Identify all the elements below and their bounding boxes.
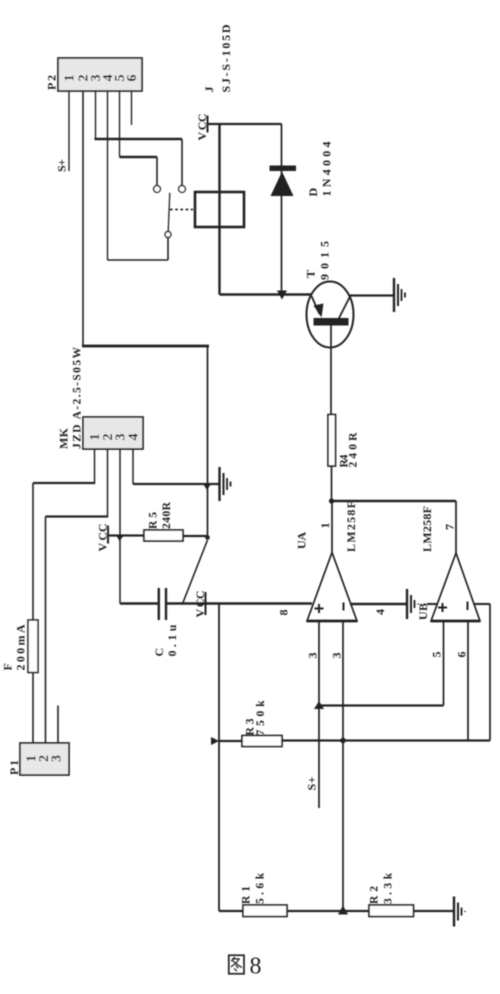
svg-text:240R: 240R xyxy=(348,432,360,468)
svg-text:4: 4 xyxy=(373,609,387,615)
svg-text:S+: S+ xyxy=(305,776,319,790)
svg-text:T: T xyxy=(304,270,318,278)
svg-text:6: 6 xyxy=(125,75,140,82)
svg-text:1: 1 xyxy=(63,75,78,82)
svg-text:C: C xyxy=(152,648,166,657)
svg-text:LM258F: LM258F xyxy=(420,506,434,552)
svg-text:S+: S+ xyxy=(55,159,69,172)
svg-text:F: F xyxy=(1,663,15,670)
svg-text:LM258F: LM258F xyxy=(344,501,358,552)
svg-text:U B: U B xyxy=(416,603,430,620)
svg-text:V CC: V CC xyxy=(96,524,110,552)
svg-text:1: 1 xyxy=(318,523,332,529)
svg-text:D: D xyxy=(306,188,320,197)
svg-text:3.3k: 3.3k xyxy=(383,872,395,904)
svg-text:0.1u: 0.1u xyxy=(165,624,179,656)
svg-text:6: 6 xyxy=(455,652,469,658)
svg-text:JZD A-2.5-S05W: JZD A-2.5-S05W xyxy=(72,347,84,450)
svg-text:5.6k: 5.6k xyxy=(255,872,267,904)
svg-text:MK: MK xyxy=(57,427,71,449)
svg-text:3: 3 xyxy=(50,755,65,762)
svg-text:V CC: V CC xyxy=(195,114,209,141)
svg-text:240R: 240R xyxy=(161,501,173,529)
svg-text:J: J xyxy=(202,87,216,93)
svg-text:4: 4 xyxy=(127,434,142,441)
svg-text:3: 3 xyxy=(306,653,320,659)
svg-text:V CC: V CC xyxy=(193,591,207,618)
svg-text:5: 5 xyxy=(430,652,444,658)
svg-text:8: 8 xyxy=(277,610,291,616)
svg-text:3: 3 xyxy=(330,653,344,659)
svg-text:7: 7 xyxy=(443,524,457,530)
svg-text:8: 8 xyxy=(250,954,262,980)
svg-text:U A: U A xyxy=(295,532,309,549)
